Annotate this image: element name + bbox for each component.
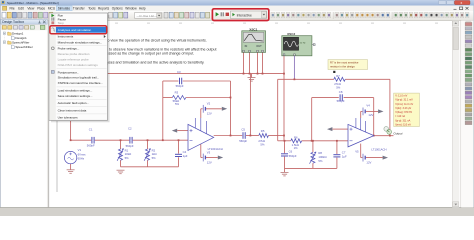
svg-text:5%: 5% [152, 156, 157, 160]
svg-text:Place: Place [37, 7, 45, 11]
svg-text:12V: 12V [368, 113, 373, 117]
svg-text:12V: 12V [366, 161, 371, 165]
svg-text:I: 110 nA: I: 110 nA [395, 115, 405, 118]
svg-text:12V: 12V [207, 111, 212, 115]
svg-text:x: x [461, 1, 463, 5]
svg-text:C3: C3 [177, 70, 181, 74]
svg-text:Stop: Stop [58, 21, 65, 25]
svg-text:File: File [10, 7, 15, 11]
svg-text:Clear instrument data: Clear instrument data [58, 108, 87, 112]
svg-text:Tools: Tools [88, 7, 96, 11]
svg-text:MCU: MCU [48, 7, 56, 11]
svg-text:OUT: OUT [256, 44, 262, 48]
svg-text:V5: V5 [355, 150, 359, 154]
svg-text:560pF: 560pF [337, 99, 345, 103]
svg-text:60Hz: 60Hz [78, 157, 85, 161]
svg-text:Use tolerances: Use tolerances [58, 116, 79, 120]
svg-text:Postprocessor...: Postprocessor... [58, 70, 80, 74]
svg-text:Analyses and simulation: Analyses and simulation [58, 28, 92, 32]
svg-text:5%: 5% [175, 102, 180, 106]
svg-text:5%: 5% [260, 143, 265, 147]
svg-text:R7: R7 [336, 74, 340, 78]
svg-text:---In-Use List---: ---In-Use List--- [137, 14, 157, 18]
svg-text:V(freq): 979 Hz: V(freq): 979 Hz [395, 111, 413, 114]
svg-text:C5: C5 [241, 127, 245, 131]
svg-text:C8: C8 [339, 90, 343, 94]
svg-text:SpeechFilter: SpeechFilter [12, 40, 29, 44]
svg-text:Automatic fault option...: Automatic fault option... [58, 101, 90, 105]
svg-text:560pF: 560pF [126, 144, 134, 148]
svg-text:View: View [27, 7, 35, 11]
svg-text:Options: Options [112, 7, 123, 11]
svg-text:R5: R5 [261, 129, 265, 133]
svg-text:Edit: Edit [18, 7, 24, 11]
svg-text:Load simulation settings...: Load simulation settings... [58, 89, 93, 93]
svg-text:V1: V1 [78, 148, 82, 152]
svg-text:Design Toolbox: Design Toolbox [2, 20, 24, 24]
svg-text:Simulate: Simulate [58, 7, 71, 11]
svg-text:560pF: 560pF [87, 144, 95, 148]
svg-text:5%: 5% [318, 159, 323, 163]
svg-text:SpeechFilter - Multisim - [Spe: SpeechFilter - Multisim - [SpeechFilter] [7, 1, 59, 5]
svg-text:5%: 5% [125, 156, 130, 160]
svg-text:Probe settings...: Probe settings... [58, 47, 80, 51]
svg-text:LT1001ACH: LT1001ACH [371, 147, 386, 151]
svg-text:Save simulation settings...: Save simulation settings... [58, 94, 93, 98]
svg-text:Output: Output [393, 131, 402, 135]
svg-text:Locate reference probe: Locate reference probe [58, 58, 89, 62]
svg-text:V4: V4 [366, 103, 370, 107]
svg-text:1%: 1% [294, 146, 299, 150]
svg-text:5%: 5% [336, 85, 341, 89]
svg-text:NI ELVIS II simulation setting: NI ELVIS II simulation settings [58, 63, 99, 67]
svg-text:Help: Help [139, 7, 146, 11]
svg-text:1µF: 1µF [183, 154, 188, 158]
svg-text:V(rms): 11.0 mV: V(rms): 11.0 mV [395, 103, 413, 106]
svg-text:C6: C6 [289, 150, 293, 154]
svg-text:Transfer: Transfer [73, 7, 86, 11]
svg-text:IN: IN [245, 44, 248, 48]
svg-text:Reverse probe direction: Reverse probe direction [58, 52, 90, 56]
svg-text:R6: R6 [294, 135, 298, 139]
svg-text:XSC2: XSC2 [287, 32, 295, 36]
svg-text:Mixed-mode simulation settings: Mixed-mode simulation settings... [58, 41, 103, 45]
svg-text:Design1: Design1 [15, 36, 27, 40]
svg-text:Window: Window [125, 7, 137, 11]
svg-text:12V: 12V [207, 160, 212, 164]
svg-text:V(dc): 3.23 µV: V(dc): 3.23 µV [395, 107, 411, 110]
svg-text:1µF: 1µF [342, 155, 347, 159]
svg-text:Simulation error log/audit tra: Simulation error log/audit trail... [58, 76, 100, 80]
svg-text:V(p-p): 31.1 mV: V(p-p): 31.1 mV [395, 99, 413, 102]
svg-text:560pF: 560pF [176, 84, 184, 88]
svg-text:50 Hz: 50 Hz [300, 42, 306, 44]
svg-text:V2: V2 [207, 102, 211, 106]
svg-text:I(rms): 110 nA: I(rms): 110 nA [395, 123, 411, 126]
svg-text:C2: C2 [128, 127, 132, 131]
svg-text:SpeechFilter: SpeechFilter [15, 45, 32, 49]
svg-text:R7 is the most sensitive: R7 is the most sensitive [330, 61, 359, 65]
svg-text:Reports: Reports [98, 7, 110, 11]
svg-text:Interactive: Interactive [237, 13, 252, 17]
svg-text:560pF: 560pF [239, 139, 247, 143]
svg-text:R3: R3 [175, 90, 179, 94]
svg-text:C1: C1 [89, 128, 93, 132]
svg-text:V: 11.0 mV: V: 11.0 mV [395, 95, 407, 98]
svg-text:I(p-p): 311 nA: I(p-p): 311 nA [395, 119, 410, 122]
svg-text:LT1001ACH: LT1001ACH [208, 147, 223, 151]
svg-text:XSPICE command line interface.: XSPICE command line interface... [58, 81, 104, 85]
svg-text:Instruments: Instruments [58, 35, 74, 39]
svg-text:560pF: 560pF [289, 154, 297, 158]
svg-text:resistor in the design: resistor in the design [330, 64, 355, 68]
